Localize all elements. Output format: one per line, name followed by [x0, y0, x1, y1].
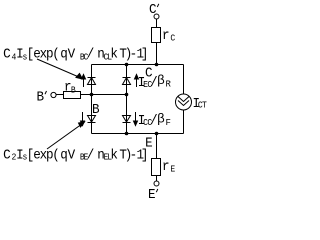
svg-text:R: R [166, 80, 172, 90]
svg-text:E: E [148, 186, 156, 200]
equation label C4Is[exp(qVBC/nCLkT)-1] [3, 46, 148, 63]
current arrow ICC/BF [134, 112, 138, 126]
wire rc to node C [156, 43, 158, 65]
node C label [145, 65, 153, 81]
wire left vertical branch [91, 65, 93, 134]
wire C' to rc [156, 19, 158, 28]
node E label [145, 135, 153, 151]
equation label C2Is[exp(qVBE/nELkT)-1] [3, 147, 148, 163]
node B' terminal [51, 92, 56, 97]
current arrow IEC/BR [135, 75, 139, 88]
current arrow for D3 [81, 112, 85, 126]
svg-text:β: β [157, 73, 165, 88]
wire re to E' [156, 176, 158, 182]
diode D3 (B-E leakage, left, pointing down) [88, 116, 96, 123]
prime of B' [45, 91, 47, 94]
node C junction dot [155, 63, 159, 67]
svg-text:F: F [166, 118, 171, 128]
wire rb to node B [81, 94, 127, 96]
diode D4 (B-E junction, inner, pointing down) [123, 116, 131, 123]
prime of E' [156, 189, 158, 192]
node B junction dot [90, 93, 94, 97]
node B rail end dot [125, 93, 129, 97]
svg-text:CT: CT [198, 100, 207, 111]
svg-text:B: B [92, 101, 100, 117]
diode D1 (B-C leakage, left, pointing up) [88, 78, 96, 85]
svg-text:C: C [149, 1, 157, 17]
junction dot inner top [125, 63, 129, 67]
label ICC/betaF [138, 112, 158, 128]
wire right side upper [183, 65, 185, 95]
wire right side lower [183, 110, 185, 134]
current source ICT [176, 94, 192, 110]
wire bottom rail E [92, 133, 184, 135]
label IEC/betaR [138, 74, 158, 90]
node E' terminal [154, 181, 159, 186]
svg-text:β: β [157, 112, 165, 127]
label ICT [193, 95, 207, 111]
resistor re [152, 159, 161, 176]
node C' terminal [154, 14, 159, 19]
diode D2 (B-C junction, inner, pointing up) [123, 78, 131, 85]
svg-text:E: E [145, 135, 153, 151]
resistor rc [152, 28, 161, 43]
junction dot inner bottom [125, 132, 129, 136]
node E junction dot [155, 132, 159, 136]
callout arrow to B-E leakage diode [47, 122, 85, 149]
svg-text:B: B [37, 89, 45, 105]
wire top rail C [92, 64, 184, 66]
wire inner vertical branch [126, 65, 128, 134]
callout arrow to B-C leakage diode [37, 59, 83, 79]
wire node E to re [156, 134, 158, 159]
prime of C' [157, 4, 159, 7]
current arrow for D1 [82, 75, 86, 88]
wire B' to rb [56, 94, 64, 96]
resistor rb [64, 92, 81, 99]
node B label [92, 101, 100, 117]
